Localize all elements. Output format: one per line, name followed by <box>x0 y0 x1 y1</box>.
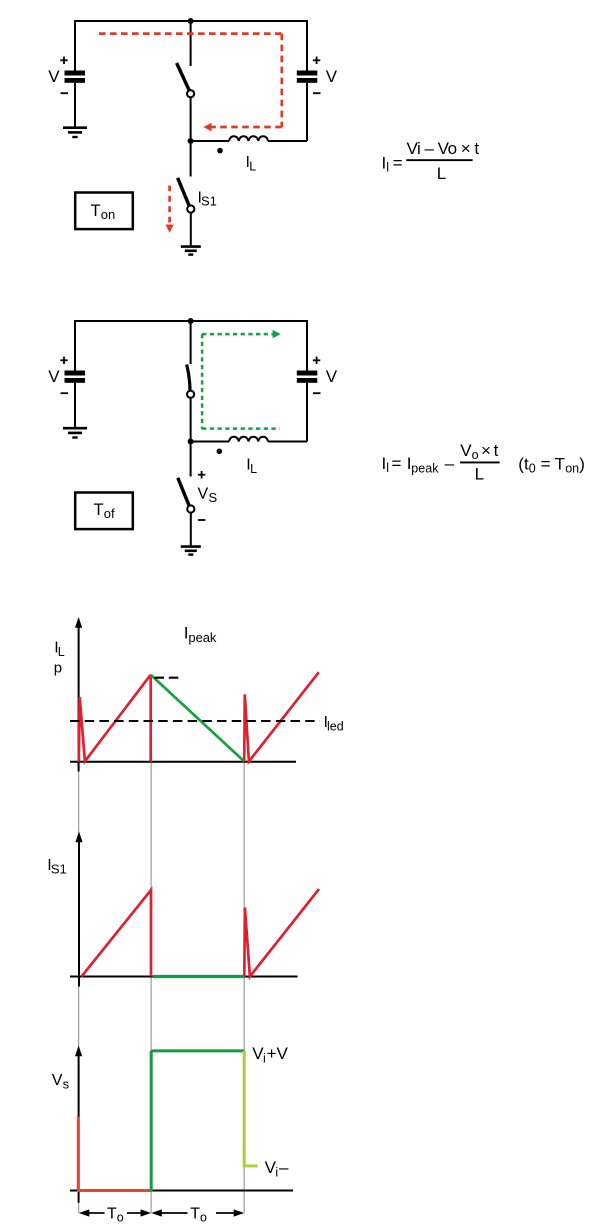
svg-text:V: V <box>460 441 472 460</box>
svg-text:on: on <box>101 207 115 222</box>
svg-text:peak: peak <box>188 630 217 645</box>
svg-text:p: p <box>54 660 62 677</box>
svg-text:(t: (t <box>518 454 529 473</box>
svg-text:T: T <box>190 1206 200 1223</box>
svg-text:L: L <box>58 645 65 659</box>
svg-text:–: – <box>279 1158 289 1177</box>
svg-text:S: S <box>209 490 218 505</box>
svg-text:L: L <box>475 465 484 484</box>
svg-text:): ) <box>579 454 585 473</box>
svg-text:peak: peak <box>411 462 439 476</box>
svg-text:V: V <box>48 67 60 86</box>
svg-text:+V: +V <box>267 1044 289 1063</box>
svg-text:i: i <box>263 1052 266 1066</box>
svg-text:0: 0 <box>529 461 536 475</box>
svg-text:S1: S1 <box>201 194 217 209</box>
svg-text:=: = <box>393 154 403 173</box>
svg-text:o: o <box>472 448 479 462</box>
svg-text:i: i <box>275 1166 278 1180</box>
svg-text:–: – <box>445 454 455 473</box>
svg-text:Vi – Vo × t: Vi – Vo × t <box>407 139 480 158</box>
svg-text:=: = <box>541 454 551 473</box>
svg-text:s: s <box>63 1076 70 1091</box>
svg-text:L: L <box>250 462 257 476</box>
svg-text:l: l <box>386 461 389 475</box>
svg-text:=: = <box>392 454 402 473</box>
svg-text:V: V <box>326 367 338 386</box>
svg-text:of: of <box>104 506 115 521</box>
svg-text:on: on <box>565 461 579 475</box>
svg-text:led: led <box>327 720 344 734</box>
svg-text:T: T <box>94 501 104 519</box>
svg-text:T: T <box>107 1206 117 1223</box>
svg-text:l: l <box>386 161 389 175</box>
svg-text:T: T <box>91 202 101 220</box>
svg-text:S1: S1 <box>51 861 67 876</box>
svg-text:×: × <box>481 441 491 460</box>
svg-text:V: V <box>326 67 338 86</box>
svg-text:T: T <box>555 454 565 473</box>
svg-text:V: V <box>198 485 209 502</box>
svg-text:V: V <box>52 1072 63 1089</box>
svg-text:V: V <box>48 367 60 386</box>
svg-text:t: t <box>494 441 499 460</box>
svg-text:L: L <box>437 164 446 183</box>
svg-text:L: L <box>249 159 256 173</box>
svg-text:o: o <box>200 1210 207 1224</box>
svg-text:o: o <box>117 1210 124 1224</box>
